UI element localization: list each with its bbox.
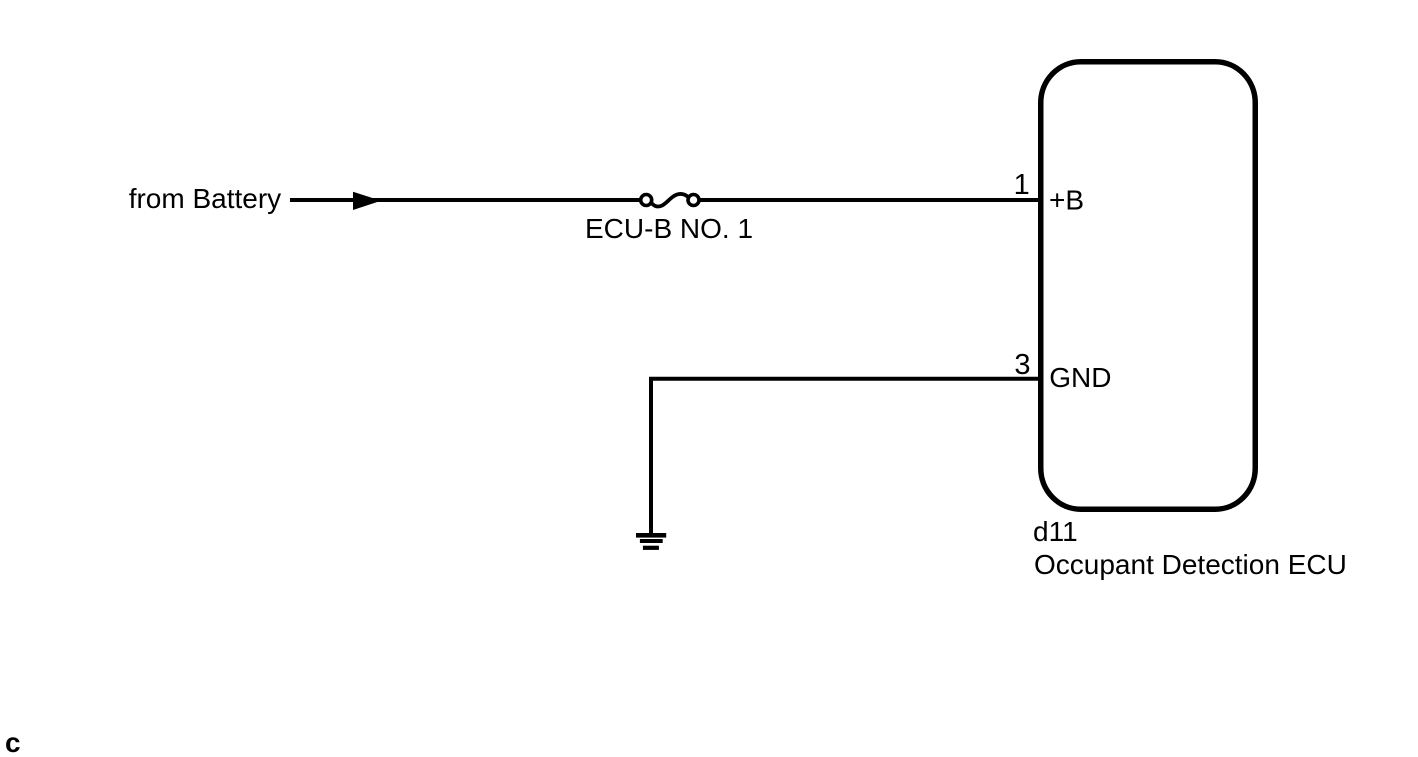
- svg-text:Occupant Detection ECU: Occupant Detection ECU: [1034, 549, 1347, 580]
- svg-text:d11: d11: [1033, 516, 1078, 547]
- svg-text:ECU-B NO. 1: ECU-B NO. 1: [585, 213, 753, 244]
- fuse ECU-B NO. 1 left terminal: [641, 195, 652, 206]
- ground bar 2: [640, 539, 663, 543]
- wire GND pin to ground: [651, 379, 1038, 535]
- svg-text:+B: +B: [1049, 185, 1084, 216]
- svg-text:3: 3: [1014, 349, 1030, 381]
- ground bar 3: [643, 546, 659, 550]
- fuse ECU-B NO. 1 right terminal: [688, 195, 699, 206]
- fuse ECU-B NO. 1 element: [651, 194, 689, 206]
- svg-text:c: c: [5, 727, 21, 757]
- wire battery to fuse: [290, 198, 640, 202]
- svg-text:1: 1: [1014, 169, 1030, 201]
- svg-text:GND: GND: [1049, 362, 1111, 393]
- arrow current direction: [353, 192, 381, 210]
- op ECU box d11: [1041, 62, 1256, 510]
- ground bar 1: [636, 533, 666, 538]
- svg-text:from Battery: from Battery: [129, 183, 281, 214]
- wire fuse to pin 1: [700, 198, 1038, 202]
